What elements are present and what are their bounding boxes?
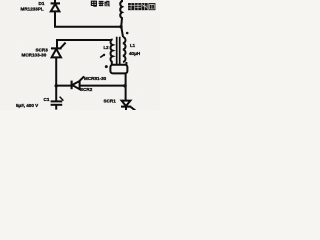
thyristor SCR3 <box>51 43 66 58</box>
node phasing dot L1 <box>126 32 129 35</box>
svg-text:SCR2: SCR2 <box>80 87 93 92</box>
diode D1 <box>51 3 60 11</box>
svg-text:MR1233PL: MR1233PL <box>21 6 44 11</box>
field winding coil <box>120 0 122 27</box>
node phasing dot L2 <box>100 54 105 57</box>
node SCR2/SCR1 junction <box>123 84 127 88</box>
transformer core <box>117 37 120 64</box>
svg-text:40μH: 40μH <box>129 51 141 56</box>
wire SCR3 cathode rail to L2 top <box>57 40 112 48</box>
inductor L1 (pulse transformer secondary) <box>123 37 126 62</box>
glyph xian <box>142 3 148 10</box>
svg-text:MCR81-30: MCR81-30 <box>84 76 107 81</box>
svg-text:L1: L1 <box>130 43 136 48</box>
wire SCR2 horizontal <box>56 85 125 87</box>
wire transformer bottom U link <box>112 62 127 65</box>
svg-text:SCR1: SCR1 <box>104 99 117 104</box>
svg-text:MCR103-30: MCR103-30 <box>22 53 47 58</box>
glyph quan <box>149 3 156 10</box>
glyph dian <box>91 1 96 5</box>
wire D1 top stub <box>54 0 56 3</box>
node phasing dot L2 bottom <box>105 65 108 68</box>
thyristor SCR1 <box>121 101 135 111</box>
label 励磁线圈 (painted glyphs) <box>128 3 155 10</box>
label 电动机 (painted glyphs) <box>91 1 109 7</box>
glyph li <box>128 3 134 10</box>
svg-text:L2: L2 <box>104 45 110 50</box>
wire D1 anode down and top rail to transformer <box>55 11 121 26</box>
glyph ji <box>105 1 109 7</box>
node junction top rail / field coil <box>119 25 122 28</box>
svg-text:C1: C1 <box>44 97 50 102</box>
inductor L2 (pulse transformer primary) <box>111 39 113 62</box>
glyph ci <box>135 3 141 10</box>
capacitor C1 <box>51 86 64 110</box>
wire junction to L1 top <box>121 27 123 37</box>
glyph dong <box>99 1 104 6</box>
svg-text:5μF, 400 V: 5μF, 400 V <box>16 103 39 108</box>
wire transformer bottom down to SCR1 <box>125 73 127 100</box>
thyristor SCR2 <box>72 76 85 89</box>
wire SCR3 anode down to node <box>55 57 57 85</box>
node SCR3/SCR2/C1 junction <box>55 84 58 87</box>
